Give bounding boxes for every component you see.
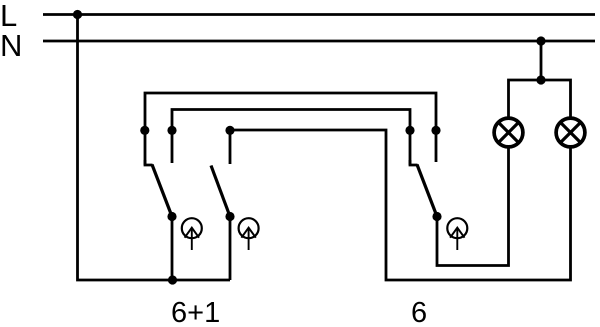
svg-text:6+1: 6+1	[171, 297, 220, 327]
svg-text:6: 6	[411, 297, 427, 327]
svg-text:N: N	[0, 28, 22, 63]
